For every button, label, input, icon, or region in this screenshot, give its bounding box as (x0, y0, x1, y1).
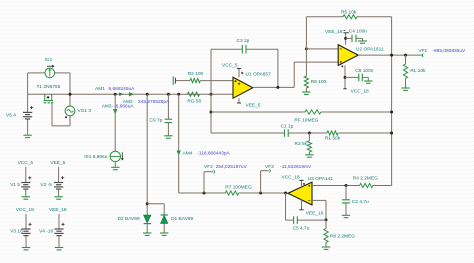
svg-text:U2 OPA1611: U2 OPA1611 (356, 46, 384, 52)
svg-text:VEE_5: VEE_5 (246, 103, 261, 109)
svg-text:IG1: IG1 (45, 57, 53, 63)
svg-text:VEE_18: VEE_18 (49, 207, 67, 213)
svg-text:U1 OPA657: U1 OPA657 (246, 71, 272, 77)
svg-text:VCC_18: VCC_18 (16, 207, 34, 213)
svg-text:R4 2.2MEG: R4 2.2MEG (353, 176, 378, 182)
svg-text:C9 7p: C9 7p (150, 117, 163, 123)
svg-text:C4 100n: C4 100n (349, 29, 367, 35)
svg-text:AM4: AM4 (183, 150, 193, 156)
svg-text:R3 5k: R3 5k (295, 141, 308, 147)
svg-text:C6 100n: C6 100n (355, 68, 373, 74)
svg-text:VF1: VF1 (418, 48, 427, 54)
svg-text:R7 100MEG: R7 100MEG (225, 184, 252, 190)
svg-text:C1 1p: C1 1p (281, 124, 294, 130)
svg-text:V1 5: V1 5 (10, 182, 20, 188)
svg-text:254,025187uV: 254,025187uV (216, 164, 248, 170)
svg-text:6,668245uA: 6,668245uA (109, 86, 136, 92)
svg-text:C2 4,7u: C2 4,7u (352, 199, 369, 205)
svg-text:RG 50: RG 50 (187, 98, 201, 104)
svg-text:T1 2N6755: T1 2N6755 (37, 84, 61, 90)
svg-text:VG1 3: VG1 3 (78, 108, 92, 114)
svg-text:R2 100: R2 100 (188, 71, 204, 77)
svg-text:V2 -5: V2 -5 (40, 182, 52, 188)
svg-text:U3 OPA141: U3 OPA141 (308, 176, 334, 182)
svg-text:AM1: AM1 (95, 86, 105, 92)
svg-text:V5 4: V5 4 (6, 112, 16, 118)
svg-text:C5 4,7u: C5 4,7u (293, 226, 310, 232)
svg-text:IS1 6,666u: IS1 6,666u (84, 154, 108, 160)
svg-text:-118,866443pA: -118,866443pA (197, 150, 230, 156)
svg-text:VF3: VF3 (265, 164, 274, 170)
svg-text:VEE_5: VEE_5 (50, 160, 65, 166)
svg-text:AM3: AM3 (102, 104, 112, 110)
svg-text:-995,050835uV: -995,050835uV (432, 48, 466, 54)
svg-text:VF2: VF2 (204, 164, 213, 170)
svg-text:D1 BAV99: D1 BAV99 (171, 216, 193, 222)
svg-text:VCC_18: VCC_18 (351, 89, 369, 95)
svg-text:VCC_5: VCC_5 (18, 160, 34, 166)
svg-text:VCC_18: VCC_18 (282, 175, 300, 181)
svg-text:R1 50k: R1 50k (325, 136, 341, 142)
svg-text:R5 10k: R5 10k (341, 9, 357, 15)
svg-text:C3 2p: C3 2p (237, 38, 250, 44)
svg-text:VCC_5: VCC_5 (222, 63, 238, 69)
svg-text:RL 10k: RL 10k (410, 68, 426, 74)
svg-text:V3 18: V3 18 (10, 229, 23, 235)
svg-text:AM2: AM2 (123, 99, 133, 105)
svg-text:R8 2.2MEG: R8 2.2MEG (330, 233, 355, 239)
svg-text:D2 BAV99: D2 BAV99 (118, 216, 140, 222)
svg-text:VEE_18: VEE_18 (306, 210, 324, 216)
svg-text:-11,632619mV: -11,632619mV (280, 164, 312, 170)
svg-text:V4 -18: V4 -18 (39, 229, 53, 235)
svg-text:RF 10MEG: RF 10MEG (294, 117, 318, 123)
svg-text:R6 100: R6 100 (311, 79, 327, 85)
svg-text:VEE_18: VEE_18 (325, 29, 343, 35)
svg-text:245,275528pA: 245,275528pA (138, 99, 170, 105)
